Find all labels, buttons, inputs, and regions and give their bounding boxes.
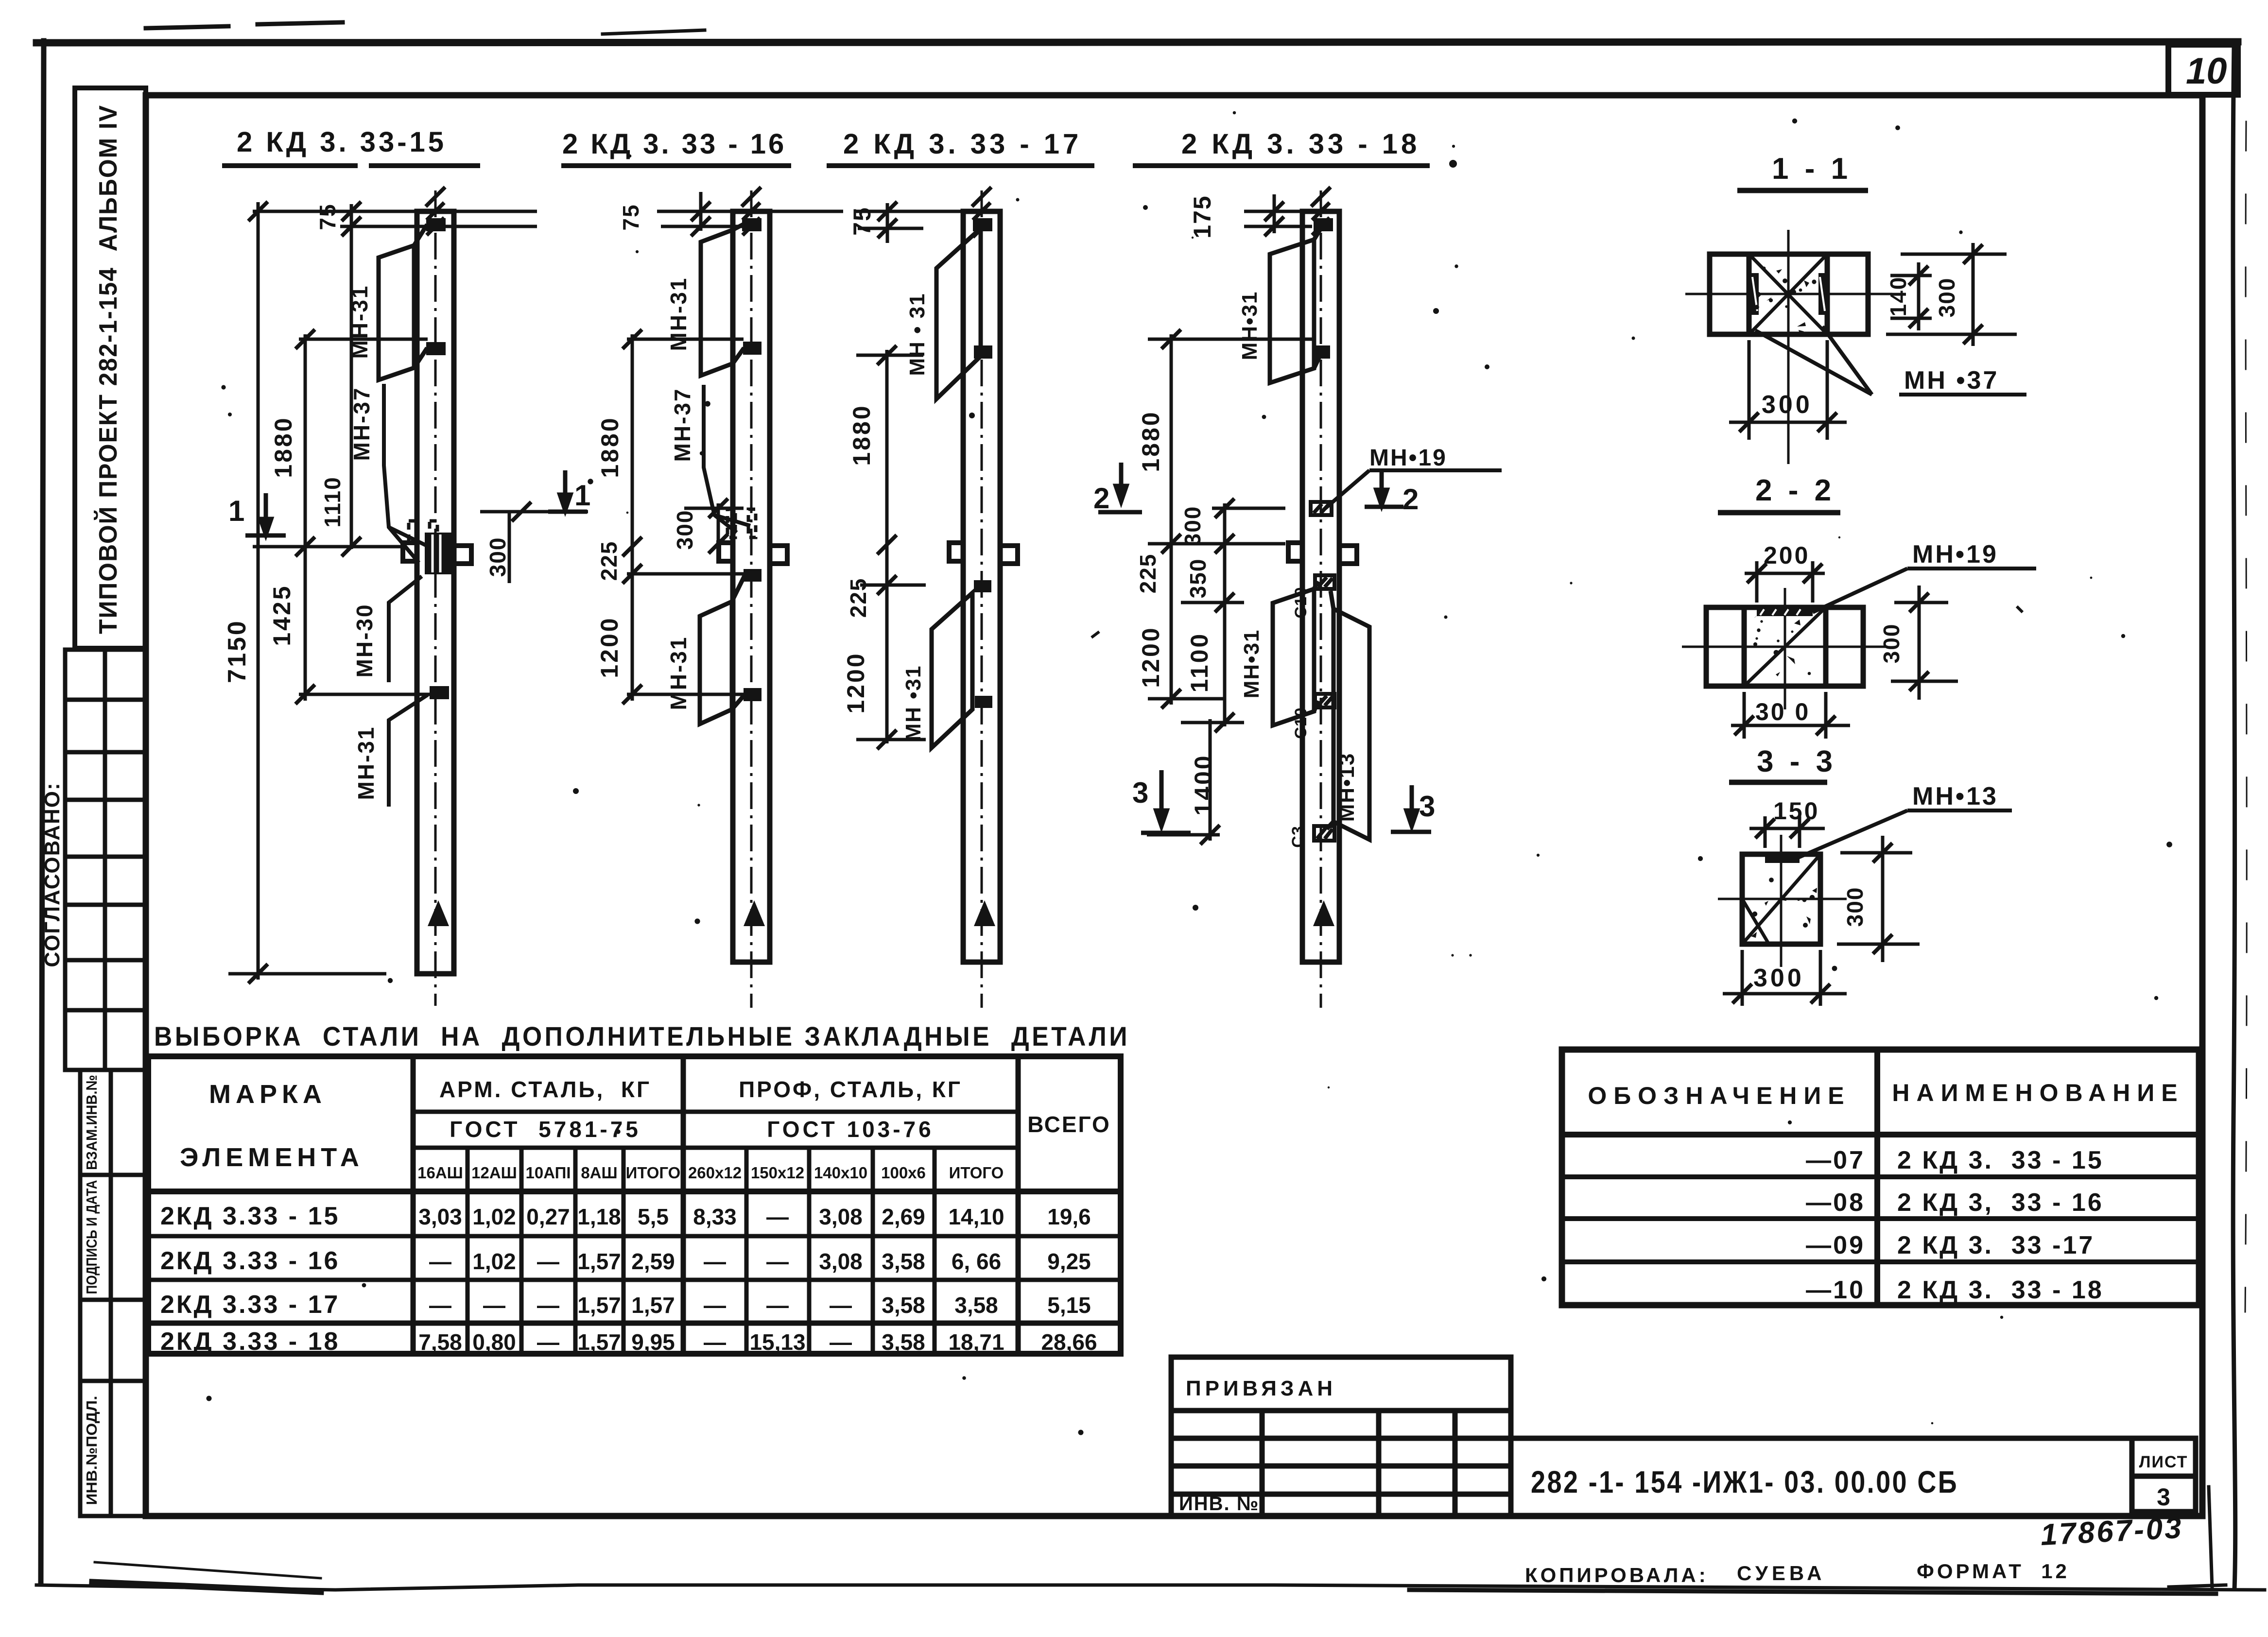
flag МН-31 upper col2: [701, 224, 744, 376]
pile tip mark col1: [428, 900, 449, 926]
svg-text:1,02: 1,02: [472, 1204, 516, 1229]
svg-text:12АШ: 12АШ: [471, 1164, 517, 1182]
flag МН-31 col1: [379, 224, 427, 380]
svg-text:18,71: 18,71: [948, 1329, 1004, 1355]
svg-text:—09: —09: [1806, 1231, 1865, 1259]
svg-text:1880: 1880: [848, 404, 875, 465]
svg-text:14,10: 14,10: [948, 1204, 1004, 1229]
flag МН-31 lower col4: [1273, 581, 1318, 725]
svg-text:ГОСТ 5781-75: ГОСТ 5781-75: [450, 1117, 641, 1142]
svg-text:—: —: [766, 1249, 789, 1274]
section 2-2 dim 300 right: [1891, 586, 1958, 700]
svg-text:282 -1- 154 -ИЖ1- 03. 00.00 СБ: 282 -1- 154 -ИЖ1- 03. 00.00 СБ: [1531, 1465, 1958, 1499]
svg-text:ГОСТ 103-76: ГОСТ 103-76: [767, 1117, 934, 1142]
svg-text:300: 300: [1879, 623, 1904, 664]
column 2КД3.33-15 title: [222, 126, 480, 166]
svg-text:3,58: 3,58: [954, 1292, 998, 1318]
svg-text:АРМ. СТАЛЬ, КГ: АРМ. СТАЛЬ, КГ: [439, 1077, 651, 1102]
svg-text:9,25: 9,25: [1047, 1249, 1091, 1274]
svg-text:8АШ: 8АШ: [581, 1164, 617, 1182]
dimension 1100 col4: [1223, 603, 1227, 726]
svg-text:ВЫБОРКА СТАЛИ НА ДОПОЛНИТЕЛ: ВЫБОРКА СТАЛИ НА ДОПОЛНИТЕЛЬНЫЕ ЗАКЛАДНЫ…: [154, 1021, 1130, 1051]
svg-text:3 - 3: 3 - 3: [1757, 745, 1836, 778]
svg-text:10АПI: 10АПI: [526, 1164, 571, 1182]
designation table grid: [1562, 1050, 2199, 1305]
section mark 3 left: [1141, 770, 1191, 833]
svg-text:ВЗАМ.ИНВ.№: ВЗАМ.ИНВ.№: [83, 1075, 100, 1170]
svg-text:2 КД 3. 33 - 16: 2 КД 3. 33 - 16: [562, 128, 786, 160]
svg-text:2КД 3.33 - 17: 2КД 3.33 - 17: [160, 1291, 340, 1319]
plate МН-31 mid col4: [1312, 345, 1330, 359]
svg-text:200: 200: [1764, 542, 1810, 569]
svg-text:МН-31: МН-31: [353, 725, 379, 800]
section mark 1 left: [245, 493, 286, 535]
title block: privyazal box: [1171, 1357, 1511, 1516]
svg-text:3,58: 3,58: [882, 1329, 925, 1355]
plate МН-31 low col1: [430, 686, 449, 699]
plate col2 low: [744, 688, 762, 701]
svg-text:175: 175: [1189, 195, 1216, 238]
svg-text:8,33: 8,33: [693, 1204, 737, 1229]
column 2КД3.33-15 body: [417, 211, 454, 974]
plate МН-31 mid col1: [426, 342, 446, 355]
scan speckle noise: [207, 111, 2172, 1435]
section 3-3 diagonal: [1742, 854, 1820, 944]
svg-text:—: —: [483, 1292, 505, 1318]
dimension 75 col4: [1244, 194, 1339, 233]
svg-text:МН-31: МН-31: [666, 636, 691, 710]
svg-text:2 КД 3. 33 -17: 2 КД 3. 33 -17: [1897, 1231, 2095, 1259]
svg-text:СУЕВА: СУЕВА: [1737, 1562, 1826, 1585]
section 1-1 body: [1710, 254, 1868, 334]
plate col3 low: [975, 696, 992, 708]
plate МН-19 on col4 (open): [1311, 502, 1332, 515]
svg-text:300: 300: [1753, 964, 1804, 992]
svg-text:1110: 1110: [320, 476, 345, 527]
svg-text:МН-37: МН-37: [670, 387, 695, 462]
svg-text:3,58: 3,58: [882, 1292, 925, 1318]
svg-text:1880: 1880: [270, 416, 297, 478]
section 2-2 plate МН-19: [1757, 608, 1813, 616]
plate МН-31 top col3: [973, 218, 992, 231]
svg-text:1425: 1425: [268, 584, 295, 646]
dimension 1880/1200/1100/1400 col4: [1148, 334, 1312, 705]
svg-text:—: —: [766, 1292, 789, 1318]
plate МН-31 top col4: [1314, 218, 1333, 231]
dimension 1880/225/1200 col2: [627, 334, 744, 701]
svg-text:МН•31: МН•31: [1238, 291, 1262, 361]
column 2КД3.33-16 body + centerline + console + tip: [750, 190, 753, 1008]
svg-text:2КД 3.33 - 15: 2КД 3.33 - 15: [160, 1202, 340, 1230]
section 3-3 concrete speckles: [1780, 897, 1786, 901]
svg-text:2: 2: [1093, 482, 1109, 515]
dimension 7150 col1: [228, 202, 537, 980]
svg-text:2 КД 3. 33 - 17: 2 КД 3. 33 - 17: [843, 128, 1082, 160]
section 2-2 body: [1706, 607, 1863, 686]
svg-text:ПРОФ, СТАЛЬ, КГ: ПРОФ, СТАЛЬ, КГ: [739, 1077, 962, 1102]
svg-text:ОБОЗНАЧЕНИЕ: ОБОЗНАЧЕНИЕ: [1588, 1082, 1851, 1109]
flag МН-31 upper col4: [1270, 224, 1323, 383]
svg-text:1200: 1200: [842, 652, 869, 713]
svg-text:10: 10: [2186, 51, 2227, 92]
plate МН-31 mid col2: [743, 342, 762, 355]
svg-text:МН•31: МН•31: [1240, 629, 1264, 699]
svg-text:30 0: 30 0: [1755, 698, 1810, 725]
svg-text:225: 225: [596, 541, 622, 581]
svg-text:2КД 3.33 - 18: 2КД 3.33 - 18: [160, 1327, 340, 1356]
svg-text:—: —: [704, 1329, 726, 1355]
svg-text:2КД 3.33 - 16: 2КД 3.33 - 16: [160, 1247, 340, 1275]
svg-text:1880: 1880: [596, 416, 623, 478]
page left border: [41, 41, 44, 1582]
svg-text:1,02: 1,02: [472, 1249, 516, 1274]
svg-text:ПОДПИСЬ И ДАТА: ПОДПИСЬ И ДАТА: [83, 1180, 100, 1294]
svg-text:3: 3: [1132, 776, 1148, 809]
hidden МН-37 channels (dashed) col2: [727, 509, 756, 537]
svg-text:2: 2: [1402, 483, 1419, 516]
svg-text:2 - 2: 2 - 2: [1755, 474, 1835, 507]
flag МН-31 lower col3: [932, 593, 972, 748]
svg-text:1400: 1400: [1190, 754, 1217, 815]
flag МН-31 lower col2: [700, 576, 744, 724]
sheet number box: [2168, 45, 2238, 95]
svg-text:7150: 7150: [223, 619, 251, 683]
flag МН-13 col4: [1327, 591, 1369, 840]
svg-text:225: 225: [1135, 553, 1160, 594]
margin cells: inv / podpis / vzam: [80, 1070, 146, 1516]
svg-text:1,57: 1,57: [577, 1329, 621, 1355]
column 2КД3.33-15 centerline: [434, 190, 437, 1006]
svg-text:140: 140: [1886, 276, 1911, 317]
plate МН-31 mid col3: [974, 345, 992, 359]
svg-text:75: 75: [618, 204, 643, 230]
dimension 1400 col4: [1147, 719, 1244, 841]
svg-text:—: —: [537, 1329, 559, 1355]
svg-text:2 КД 3. 33-15: 2 КД 3. 33-15: [237, 126, 447, 158]
page bottom scan edge: [36, 1585, 2265, 1590]
svg-text:2,69: 2,69: [882, 1204, 925, 1229]
section 2-2 diagonal: [1744, 607, 1826, 686]
svg-text:—: —: [830, 1329, 852, 1355]
section 1-1 МН-37 channel strips: [1751, 273, 1826, 315]
svg-text:300: 300: [1934, 277, 1959, 318]
svg-text:225: 225: [846, 578, 871, 618]
svg-text:300: 300: [672, 510, 697, 550]
column 1 console: [403, 543, 471, 564]
embedded part МН-30 block: [425, 533, 452, 574]
svg-text:300: 300: [1762, 391, 1813, 419]
section 1-1 dim 300 bottom: [1729, 340, 1847, 440]
section 2-2 concrete speckles: [1760, 620, 1763, 622]
svg-text:—10: —10: [1806, 1276, 1865, 1304]
svg-text:1,57: 1,57: [577, 1292, 621, 1318]
svg-text:ИНВ. №: ИНВ. №: [1179, 1493, 1259, 1515]
svg-text:МН•19: МН•19: [1369, 445, 1447, 471]
dimension 1880/225/1200 col3: [856, 350, 926, 743]
dimension 75 col2: [657, 192, 843, 231]
svg-text:2 КД 3. 33 - 18: 2 КД 3. 33 - 18: [1897, 1276, 2104, 1304]
svg-text:100х6: 100х6: [881, 1164, 926, 1182]
svg-text:350: 350: [1185, 558, 1211, 599]
svg-text:—: —: [429, 1249, 451, 1274]
svg-text:5,15: 5,15: [1047, 1292, 1091, 1318]
svg-text:19,6: 19,6: [1047, 1204, 1091, 1229]
svg-text:ТИПОВОЙ ПРОЕКТ 282-1-154 АЛЬБ: ТИПОВОЙ ПРОЕКТ 282-1-154 АЛЬБОМ IV: [94, 104, 122, 634]
svg-text:ЭЛЕМЕНТА: ЭЛЕМЕНТА: [180, 1143, 364, 1172]
section mark 2 left: [1098, 463, 1142, 512]
flag МН-31 upper col3: [936, 228, 981, 399]
svg-text:28,66: 28,66: [1041, 1329, 1097, 1355]
svg-text:ИНВ.№ПОДЛ.: ИНВ.№ПОДЛ.: [83, 1396, 100, 1505]
svg-text:МН •37: МН •37: [1904, 366, 1999, 395]
svg-text:150х12: 150х12: [751, 1164, 804, 1182]
svg-text:1,57: 1,57: [631, 1292, 675, 1318]
svg-text:1: 1: [228, 495, 244, 527]
svg-text:СОГЛАСОВАНО:: СОГЛАСОВАНО:: [40, 782, 64, 967]
svg-text:1200: 1200: [1137, 626, 1164, 688]
svg-text:1200: 1200: [596, 616, 623, 678]
section 1-1 cross diagonals: [1749, 254, 1827, 334]
svg-text:2 КД 3. 33 - 15: 2 КД 3. 33 - 15: [1897, 1146, 2104, 1174]
svg-text:300: 300: [1180, 506, 1205, 546]
svg-text:ВСЕГО: ВСЕГО: [1027, 1112, 1111, 1137]
svg-text:300: 300: [1842, 887, 1868, 927]
hidden МН-37 channels (dashed) col1: [409, 521, 437, 540]
column 2КД3.33-17 body + centerline + console + tip: [981, 190, 983, 1008]
svg-text:17867-03: 17867-03: [2040, 1511, 2184, 1552]
section 1-1 centerlines: [1685, 230, 1892, 464]
svg-text:2 КД 3. 33 - 18: 2 КД 3. 33 - 18: [1181, 128, 1420, 160]
svg-text:3,08: 3,08: [819, 1249, 863, 1274]
page top border: [36, 42, 2238, 43]
steel table grid: [148, 1056, 1121, 1354]
section 3-3 dim 300 bottom: [1723, 950, 1847, 1006]
svg-text:ИТОГО: ИТОГО: [949, 1164, 1004, 1182]
dimension 300 col2: [684, 503, 744, 549]
dimension 75 / 1110 col1: [350, 204, 353, 549]
svg-text:75: 75: [848, 207, 876, 236]
svg-text:150: 150: [1773, 797, 1819, 825]
svg-text:6, 66: 6, 66: [952, 1249, 1001, 1274]
svg-text:260х12: 260х12: [688, 1164, 742, 1182]
dimension 300/350 col4: [1181, 503, 1285, 607]
svg-text:7,58: 7,58: [418, 1329, 462, 1355]
svg-text:1100: 1100: [1186, 632, 1213, 692]
svg-text:КОПИРОВАЛА:: КОПИРОВАЛА:: [1525, 1564, 1709, 1586]
section 2-2 centerlines: [1682, 588, 1887, 709]
svg-text:3,03: 3,03: [418, 1204, 462, 1229]
svg-text:1880: 1880: [1137, 410, 1164, 472]
svg-text:МН •31: МН •31: [901, 665, 925, 741]
svg-text:—: —: [766, 1204, 789, 1229]
svg-text:МН • 31: МН • 31: [905, 293, 929, 376]
svg-text:—: —: [537, 1292, 559, 1318]
svg-text:2 КД 3, 33 - 16: 2 КД 3, 33 - 16: [1897, 1189, 2104, 1217]
svg-text:—: —: [704, 1292, 726, 1318]
svg-text:ЛИСТ: ЛИСТ: [2139, 1453, 2188, 1471]
svg-text:9,95: 9,95: [631, 1329, 675, 1355]
section 1-1 dim 140/300 right: [1886, 243, 2017, 346]
svg-text:МН•13: МН•13: [1912, 782, 1998, 810]
svg-text:С3: С3: [1289, 826, 1307, 847]
section 3-3 plate МН-13: [1765, 856, 1800, 863]
section 3-3 dim 300 right: [1837, 836, 1920, 962]
svg-text:МАРКА: МАРКА: [209, 1080, 327, 1109]
svg-text:16АШ: 16АШ: [417, 1164, 463, 1182]
svg-text:—: —: [429, 1292, 451, 1318]
svg-text:—: —: [830, 1292, 852, 1318]
section mark 1 right: [548, 470, 587, 512]
svg-text:5,5: 5,5: [638, 1204, 669, 1229]
svg-text:140х10: 140х10: [814, 1164, 867, 1182]
svg-text:МН-30: МН-30: [352, 603, 377, 677]
title block: document number cell: [1511, 1438, 2196, 1512]
section 1-1 concrete speckles: [1776, 269, 1782, 274]
svg-text:0,27: 0,27: [526, 1204, 570, 1229]
svg-text:ПРИВЯЗАН: ПРИВЯЗАН: [1186, 1377, 1336, 1400]
plate col2 below console: [744, 569, 762, 582]
centerline top ticks: [426, 187, 1331, 237]
svg-text:3: 3: [1419, 790, 1435, 823]
svg-text:—: —: [537, 1249, 559, 1274]
svg-text:1,57: 1,57: [577, 1249, 621, 1274]
plate МН-31 top col2: [742, 218, 762, 231]
dimension 75 col3: [855, 203, 997, 243]
dimension chain 1880/1425 col1: [253, 334, 430, 701]
svg-text:0,80: 0,80: [472, 1329, 516, 1355]
column 2КД3.33-18 body + centerline + console + tip: [1320, 190, 1322, 1008]
svg-text:1,18: 1,18: [577, 1204, 621, 1229]
svg-text:3: 3: [2157, 1483, 2170, 1511]
svg-text:—: —: [704, 1249, 726, 1274]
section 2-2 dim 300 bottom: [1731, 692, 1850, 739]
svg-text:МН•19: МН•19: [1912, 540, 1998, 569]
svg-text:3,58: 3,58: [882, 1249, 925, 1274]
svg-text:300: 300: [485, 537, 510, 577]
svg-text:—07: —07: [1806, 1146, 1865, 1174]
section 3-3 body: [1742, 854, 1820, 944]
svg-text:—08: —08: [1806, 1189, 1865, 1217]
plate МН-31 top col1: [426, 218, 446, 231]
section mark 2 right: [1365, 471, 1403, 507]
svg-text:ИТОГО: ИТОГО: [626, 1164, 681, 1182]
plates С10 col4 (hatched): [1314, 575, 1334, 841]
plate col3 below console: [974, 580, 991, 592]
svg-text:1: 1: [574, 479, 590, 512]
svg-text:МН•13: МН•13: [1335, 753, 1359, 822]
svg-text:1 - 1: 1 - 1: [1772, 152, 1852, 186]
left stamp column box: [75, 88, 146, 648]
section 3-3 centerlines: [1718, 835, 1847, 967]
svg-text:ФОРМАТ 12: ФОРМАТ 12: [1917, 1560, 2070, 1583]
svg-text:75: 75: [315, 203, 340, 230]
svg-text:2,59: 2,59: [631, 1249, 675, 1274]
signature grid: [65, 650, 146, 1070]
svg-text:НАИМЕНОВАНИЕ: НАИМЕНОВАНИЕ: [1892, 1079, 2184, 1106]
drawing frame: [146, 95, 2202, 1516]
svg-text:15,13: 15,13: [749, 1329, 805, 1355]
page right edge scan streak: [2233, 46, 2235, 1589]
section mark 3 right: [1391, 785, 1431, 832]
svg-text:3,08: 3,08: [819, 1204, 863, 1229]
dimension 300 col1 right: [480, 512, 588, 583]
